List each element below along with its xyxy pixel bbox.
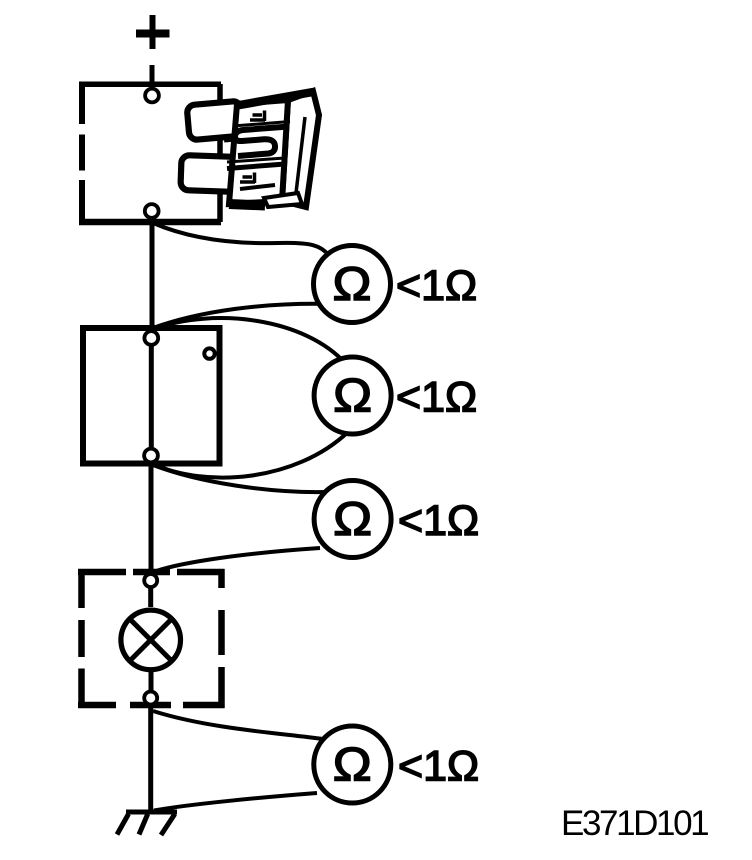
svg-text:Ω: Ω [333, 369, 372, 422]
svg-text:Ω: Ω [333, 492, 372, 545]
svg-text:<1Ω: <1Ω [398, 497, 479, 545]
svg-text:E371D101: E371D101 [561, 804, 708, 843]
svg-text:<1Ω: <1Ω [396, 374, 477, 422]
svg-text:Ω: Ω [333, 738, 372, 791]
svg-text:<1Ω: <1Ω [396, 262, 477, 310]
svg-text:Ω: Ω [333, 257, 372, 310]
svg-text:<1Ω: <1Ω [398, 743, 479, 791]
